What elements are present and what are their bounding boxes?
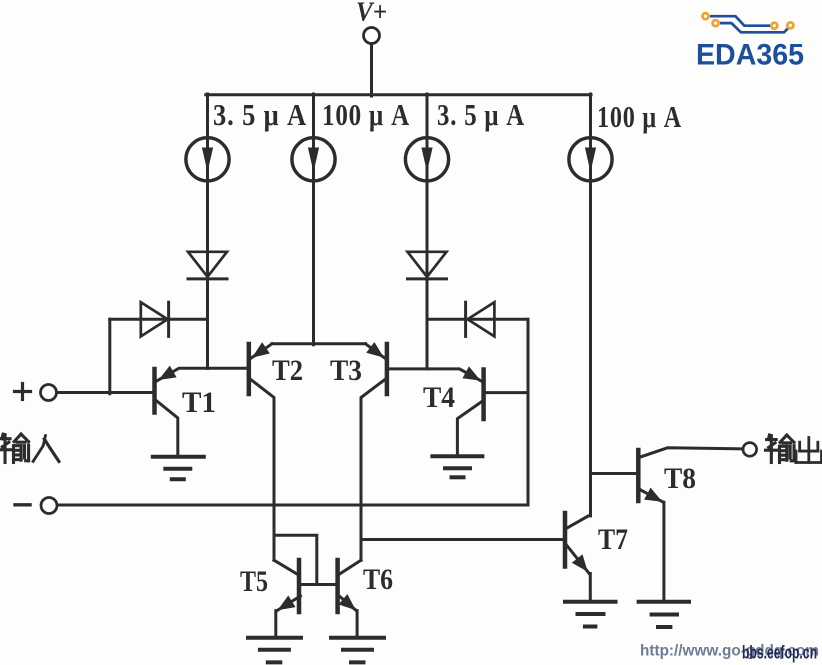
transistor T1 emitter <box>157 366 208 381</box>
diode D4 <box>427 302 528 336</box>
transistor T8 base bar <box>636 450 641 501</box>
diode D3 <box>110 302 208 336</box>
svg-text:bbs.eefop.cn: bbs.eefop.cn <box>742 643 817 663</box>
wire T7 collector to T8 base <box>591 472 637 475</box>
current source I2 100uA <box>292 94 335 345</box>
wire node A to T2 base <box>208 367 247 370</box>
transistor T7 emitter <box>567 545 590 574</box>
svg-text:100 μ A: 100 μ A <box>322 97 410 132</box>
current source I1 3.5uA <box>186 94 229 368</box>
wire T8 emitter drop <box>662 502 665 601</box>
transistor T3 base bar <box>385 344 390 394</box>
label T1 <box>182 386 216 419</box>
logo EDA365 pad 4 <box>787 22 793 28</box>
diode D1 <box>188 252 227 279</box>
transistor T3 emitter <box>366 342 385 358</box>
logo EDA365 wordmark <box>696 39 804 72</box>
svg-text:100 μ A: 100 μ A <box>597 99 682 134</box>
wire T7 emitter drop <box>589 574 592 602</box>
wire T6 emitter drop <box>356 611 359 637</box>
label - input <box>15 503 30 506</box>
wire T2 T3 emitter rail <box>272 342 366 345</box>
label 100μA <box>597 99 682 134</box>
wire first stage to T7 base <box>361 538 563 541</box>
label T2 <box>272 354 303 387</box>
transistor T4 base bar <box>481 370 486 420</box>
ground T1 <box>153 457 204 479</box>
label T3 <box>330 354 362 387</box>
wire T5 emitter drop <box>274 611 277 637</box>
transistor T1 base bar <box>152 369 157 413</box>
logo EDA365 pad 2 <box>713 20 719 26</box>
wire node C column <box>527 319 530 505</box>
transistor T2 collector <box>251 380 274 561</box>
terminal + input <box>41 385 57 401</box>
wire T4 base to node C <box>486 391 528 394</box>
transistor T1 collector <box>157 401 178 456</box>
watermark bbs.eefop.cn <box>742 643 817 663</box>
wire - input line <box>57 504 528 507</box>
logo EDA365 pad 3 <box>771 23 777 29</box>
label T8 <box>664 462 696 495</box>
transistor T8 emitter <box>640 488 664 503</box>
svg-text:T6: T6 <box>363 563 393 596</box>
label output (Chinese chu) <box>796 438 821 463</box>
logo EDA365 trace 2 <box>720 23 788 32</box>
transistor T8 collector <box>640 448 743 457</box>
svg-text:T8: T8 <box>664 462 696 495</box>
transistor T7 collector <box>567 516 591 529</box>
transistor T6 base bar <box>335 560 340 612</box>
svg-text:T1: T1 <box>182 386 216 419</box>
label 3.5μA <box>437 97 525 132</box>
svg-text:3. 5 μ A: 3. 5 μ A <box>437 97 525 132</box>
transistor T5 collector <box>274 560 297 574</box>
label output (Chinese shu) <box>766 435 795 462</box>
transistor T4 collector <box>457 401 482 456</box>
label input (Chinese ru) <box>33 436 59 462</box>
transistor T5 base bar <box>297 560 302 612</box>
wire top supply bus <box>206 93 591 96</box>
ground T8 <box>639 602 689 627</box>
label T4 <box>423 381 455 414</box>
wire T5 collector-base tie <box>274 535 317 584</box>
svg-text:EDA365: EDA365 <box>696 39 804 72</box>
ground T4 <box>432 456 482 477</box>
wire + input to T1 base <box>57 391 153 394</box>
wire V+ stem <box>370 44 373 96</box>
label input (Chinese shu) <box>0 434 29 462</box>
label T7 <box>598 523 628 556</box>
transistor T2 base bar <box>247 344 252 394</box>
transistor T6 collector <box>339 560 361 574</box>
V+ terminal <box>364 28 380 44</box>
label 100μA <box>322 97 410 132</box>
ground T7 <box>565 602 616 627</box>
svg-text:V+: V+ <box>356 0 387 27</box>
logo EDA365 trace 1 <box>710 16 770 26</box>
ground T6 <box>331 638 384 663</box>
transistor T2 emitter <box>251 342 272 358</box>
ground T5 <box>248 638 301 663</box>
svg-text:T5: T5 <box>240 565 268 598</box>
svg-text:T3: T3 <box>330 354 362 387</box>
transistor T6 emitter <box>339 594 357 611</box>
svg-text:3. 5 μ A: 3. 5 μ A <box>213 97 307 132</box>
label T5 <box>240 565 268 598</box>
V+ supply label <box>356 0 387 27</box>
transistor T4 emitter <box>427 366 482 381</box>
label T6 <box>363 563 393 596</box>
current source I3 3.5uA <box>405 94 448 369</box>
diode D2 <box>408 252 447 279</box>
svg-text:T7: T7 <box>598 523 628 556</box>
svg-text:T4: T4 <box>423 381 455 414</box>
current source I4 100uA <box>569 94 612 516</box>
terminal - input <box>41 498 57 514</box>
transistor T7 base bar <box>563 513 568 567</box>
label + input <box>15 384 31 400</box>
label 3.5μA <box>213 97 307 132</box>
transistor T5 emitter <box>277 596 301 611</box>
watermark go-gddq url <box>640 643 819 660</box>
wire T5 T6 base rail <box>301 583 337 586</box>
logo EDA365 pad 1 <box>703 13 709 19</box>
terminal output <box>743 443 757 457</box>
wire T3 base to node B <box>389 367 427 370</box>
wire D3 anode drop <box>108 319 111 394</box>
transistor T3 collector <box>361 380 385 561</box>
svg-text:T2: T2 <box>272 354 303 387</box>
